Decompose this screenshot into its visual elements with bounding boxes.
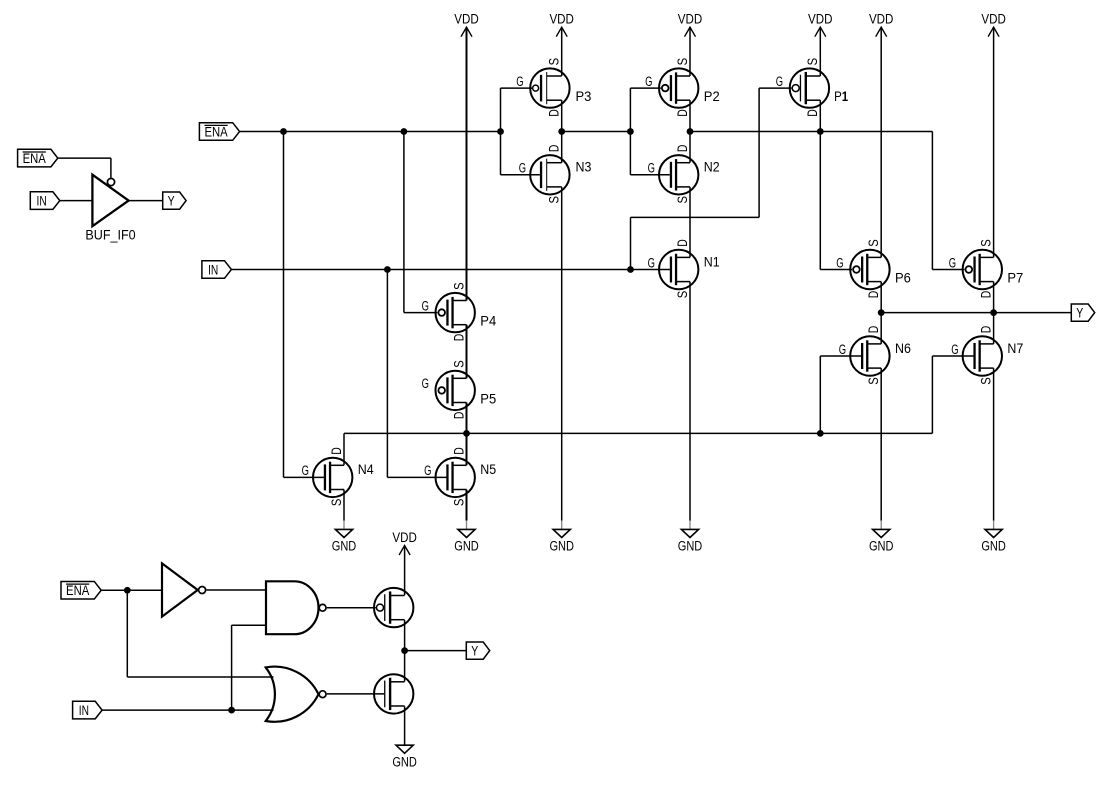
wire to P6 gate xyxy=(820,269,852,271)
wire to N2 gate xyxy=(630,174,669,176)
wire to P7 gate xyxy=(932,269,964,271)
wire ENA to P3/N3 gates xyxy=(500,88,502,175)
svg-text:G: G xyxy=(949,255,956,270)
wire P1 drain down to P6 gate row xyxy=(819,100,821,269)
transistor N1 (NMOS) xyxy=(648,239,720,298)
wire N2 source to N1 drain xyxy=(689,187,691,258)
junction xyxy=(627,128,634,135)
svg-text:ENA: ENA xyxy=(23,151,46,166)
svg-text:S: S xyxy=(547,58,562,66)
junction xyxy=(817,430,824,437)
svg-text:G: G xyxy=(516,74,523,89)
svg-text:D: D xyxy=(451,334,466,342)
wire P4 drain to P5 source xyxy=(466,325,468,379)
svg-text:VDD: VDD xyxy=(454,12,479,27)
wire ENA to NOR input xyxy=(127,676,273,678)
wire node x1 horizontal xyxy=(690,131,932,133)
svg-text:G: G xyxy=(648,161,655,176)
svg-text:GND: GND xyxy=(454,539,479,554)
wire inverter out to NAND input xyxy=(206,589,266,591)
svg-text:G: G xyxy=(645,74,652,89)
svg-text:ENA: ENA xyxy=(66,583,89,598)
wire N1 source to GND xyxy=(689,282,691,521)
wire to N6 gate xyxy=(820,355,861,357)
wire N5 source to GND xyxy=(466,490,468,521)
wire N4 source to GND xyxy=(343,490,345,521)
svg-text:VDD: VDD xyxy=(678,12,703,27)
wire P7 drain to N7 drain xyxy=(993,282,995,344)
wire to P3 gate xyxy=(501,87,533,89)
svg-text:S: S xyxy=(978,377,993,385)
inverter U1 xyxy=(162,563,198,616)
wire N6 source to GND xyxy=(880,368,882,520)
transistor P7 (PMOS) xyxy=(949,239,1024,298)
svg-text:VDD: VDD xyxy=(981,12,1006,27)
svg-text:VDD: VDD xyxy=(549,12,574,27)
wire NOR out to NMOS gate xyxy=(327,693,384,695)
wire to P1 gate xyxy=(759,87,791,89)
svg-text:Y: Y xyxy=(471,644,478,659)
svg-text:P3: P3 xyxy=(576,89,592,104)
net flag IN xyxy=(202,261,232,279)
svg-text:BUF_IF0: BUF_IF0 xyxy=(85,227,135,242)
wire up to P1 gate row xyxy=(758,88,760,217)
svg-text:D: D xyxy=(451,411,466,419)
wire VDD rail (thick) to P4 source xyxy=(466,27,468,300)
buffer symbol BUF_IF0 xyxy=(92,175,128,227)
transistor Q2 (NMOS) xyxy=(374,674,413,713)
svg-text:VDD: VDD xyxy=(869,12,894,27)
wire VDD to PMOS source xyxy=(404,546,406,596)
svg-text:D: D xyxy=(978,326,993,334)
net flag IN xyxy=(73,701,103,719)
power symbol VDD rail 6 xyxy=(988,27,999,37)
wire to P4 gate xyxy=(404,312,437,314)
junction xyxy=(384,266,391,273)
wire NAND out to PMOS gate xyxy=(327,607,376,609)
wire up to N6 gate row xyxy=(819,356,821,433)
svg-text:P7: P7 xyxy=(1007,271,1023,286)
wire node x2 xyxy=(562,131,631,133)
svg-text:Y: Y xyxy=(168,194,175,209)
wire to N4 gate xyxy=(284,476,324,478)
power symbol GND under N7 xyxy=(993,521,995,530)
svg-text:G: G xyxy=(424,463,431,478)
svg-text:IN: IN xyxy=(37,194,47,209)
transistor Q1 (PMOS) xyxy=(374,588,413,627)
transistor N7 (NMOS) xyxy=(951,326,1023,385)
transistor N3 (NMOS) xyxy=(519,144,592,203)
svg-text:S: S xyxy=(675,291,690,299)
svg-text:ENA: ENA xyxy=(204,124,227,139)
power symbol GND under N3 xyxy=(561,521,563,530)
svg-text:S: S xyxy=(866,377,881,385)
junction xyxy=(228,707,235,714)
svg-text:D: D xyxy=(978,290,993,298)
wire N4 drain up xyxy=(343,433,345,465)
svg-text:G: G xyxy=(648,255,655,270)
svg-text:G: G xyxy=(422,298,429,313)
junction xyxy=(124,587,131,594)
net flag ENA xyxy=(199,123,239,141)
svg-text:VDD: VDD xyxy=(392,530,417,545)
wire down to enable bubble xyxy=(110,158,112,177)
transistor P6 (PMOS) xyxy=(836,239,911,298)
svg-text:S: S xyxy=(451,360,466,368)
net flag ENA xyxy=(18,149,58,167)
wire IN to buffer xyxy=(60,200,93,202)
wire to N7 gate xyxy=(932,355,973,357)
wire net Y out xyxy=(405,650,467,652)
svg-text:GND: GND xyxy=(678,539,703,554)
wire PMOS drain to Y xyxy=(404,620,406,651)
svg-text:GND: GND xyxy=(332,539,357,554)
power symbol GND under N1 xyxy=(689,521,691,530)
svg-text:VDD: VDD xyxy=(808,12,833,27)
svg-text:S: S xyxy=(547,196,562,204)
wire ENA to inverter xyxy=(101,589,162,591)
transistor P3 (PMOS) xyxy=(516,58,591,117)
wire up to N7 gate row xyxy=(931,356,933,433)
svg-text:P2: P2 xyxy=(704,89,720,104)
svg-text:G: G xyxy=(302,463,309,478)
transistor P5 (PMOS) xyxy=(422,360,497,419)
power symbol GND under N4 xyxy=(343,521,345,530)
transistor P1 (PMOS) xyxy=(776,58,849,117)
svg-text:S: S xyxy=(451,499,466,507)
wire IN up toward P1 gate xyxy=(630,217,632,269)
BUF_IF0 enable bubble xyxy=(107,178,114,185)
transistor N2 (NMOS) xyxy=(648,144,720,203)
svg-text:D: D xyxy=(547,144,562,152)
svg-text:IN: IN xyxy=(208,262,218,277)
wire ENA down xyxy=(126,590,128,677)
svg-text:D: D xyxy=(329,447,344,455)
wire buffer output to Y xyxy=(129,200,163,202)
transistor N5 (NMOS) xyxy=(424,447,496,506)
NAND U2 output bubble xyxy=(319,604,326,611)
wire net ENA horizontal xyxy=(240,131,501,133)
power symbol GND under N5 xyxy=(466,521,468,530)
svg-text:D: D xyxy=(805,109,820,117)
wire toward P1 gate xyxy=(631,216,760,218)
svg-text:Y: Y xyxy=(1076,306,1083,321)
svg-text:N3: N3 xyxy=(576,160,592,175)
wire P5 drain to N5 drain xyxy=(466,403,468,466)
wire node enb horizontal xyxy=(344,432,932,434)
svg-text:S: S xyxy=(866,239,881,247)
svg-text:G: G xyxy=(951,342,958,357)
power symbol VDD (output stage) xyxy=(399,546,410,556)
svg-text:D: D xyxy=(866,290,881,298)
junction xyxy=(627,266,634,273)
junction xyxy=(401,128,408,135)
svg-text:D: D xyxy=(866,326,881,334)
wire VDD to P2 source xyxy=(689,27,691,76)
svg-text:D: D xyxy=(451,447,466,455)
svg-text:S: S xyxy=(675,58,690,66)
svg-text:D: D xyxy=(675,109,690,117)
svg-text:G: G xyxy=(836,255,843,270)
NAND gate U2 xyxy=(266,581,319,634)
svg-text:D: D xyxy=(675,144,690,152)
net flag IN xyxy=(30,192,60,210)
junction xyxy=(497,128,504,135)
NOR U3 output bubble xyxy=(319,691,326,698)
svg-text:P1: P1 xyxy=(834,89,848,104)
svg-text:P4: P4 xyxy=(480,314,496,329)
svg-text:P6: P6 xyxy=(895,271,911,286)
svg-text:G: G xyxy=(839,342,846,357)
svg-text:N5: N5 xyxy=(480,462,496,477)
transistor N4 (NMOS) xyxy=(302,447,375,506)
svg-text:N2: N2 xyxy=(704,160,720,175)
NOR gate U3 xyxy=(266,667,319,722)
junction xyxy=(687,128,694,135)
wire IN to NOR input xyxy=(102,709,273,711)
inverter U1 output bubble xyxy=(199,587,206,594)
wire IN down to N5 gate xyxy=(386,270,388,478)
power symbol VDD rail 4 xyxy=(815,27,826,37)
svg-text:N1: N1 xyxy=(704,254,720,269)
svg-text:IN: IN xyxy=(79,703,89,718)
svg-text:GND: GND xyxy=(392,755,417,770)
svg-text:GND: GND xyxy=(869,539,894,554)
wire P2 drain to N2 drain xyxy=(689,100,691,163)
wire x1 down to P7 gate xyxy=(931,132,933,270)
svg-text:D: D xyxy=(675,239,690,247)
svg-text:GND: GND xyxy=(549,539,574,554)
junction xyxy=(401,647,408,654)
wire N7 source to GND xyxy=(993,368,995,520)
wire to P2 gate xyxy=(630,87,660,89)
wire ENA to buffer xyxy=(58,157,111,159)
net flag Y xyxy=(163,192,186,209)
wire N3 source to GND xyxy=(561,187,563,521)
wire P6 drain to N6 drain xyxy=(880,282,882,344)
wire net Y xyxy=(881,312,1071,314)
svg-text:N4: N4 xyxy=(358,462,374,477)
junction xyxy=(463,430,470,437)
svg-text:G: G xyxy=(776,74,783,89)
transistor P2 (PMOS) xyxy=(645,58,720,117)
svg-text:P5: P5 xyxy=(480,391,496,406)
net flag Y xyxy=(466,642,489,659)
svg-text:S: S xyxy=(675,196,690,204)
power symbol VDD rail 2 xyxy=(556,27,567,37)
wire VDD to P6 source xyxy=(880,27,882,257)
wire to N5 gate xyxy=(387,476,446,478)
power symbol VDD rail 3 xyxy=(685,27,696,37)
junction xyxy=(990,309,997,316)
junction xyxy=(878,309,885,316)
power symbol VDD rail 1 xyxy=(461,27,472,37)
wire P3 drain to N3 drain xyxy=(561,100,563,163)
junction xyxy=(558,128,565,135)
junction xyxy=(280,128,287,135)
wire net IN horizontal xyxy=(231,269,669,271)
wire to NAND lower input xyxy=(232,624,266,626)
wire NMOS source to GND xyxy=(404,706,406,745)
wire to N3 gate xyxy=(501,174,540,176)
svg-text:D: D xyxy=(547,109,562,117)
transistor P4 (PMOS) xyxy=(422,282,497,341)
wire VDD to P7 source xyxy=(993,27,995,257)
wire Y to NMOS drain xyxy=(404,651,406,682)
svg-text:N6: N6 xyxy=(895,341,911,356)
net flag Y xyxy=(1071,304,1094,321)
svg-text:G: G xyxy=(519,161,526,176)
svg-text:N7: N7 xyxy=(1007,341,1023,356)
svg-text:S: S xyxy=(451,282,466,290)
wire IN up to NAND input xyxy=(231,625,233,710)
power symbol GND (output stage) xyxy=(396,745,413,753)
junction xyxy=(817,128,824,135)
wire VDD to P1 source xyxy=(819,27,821,76)
net flag ENA xyxy=(61,581,101,599)
power symbol GND under N6 xyxy=(880,521,882,530)
wire ENA down to P4 gate xyxy=(403,132,405,313)
wire x2 to P2/N2 gates xyxy=(629,88,631,175)
svg-text:S: S xyxy=(978,239,993,247)
transistor N6 (NMOS) xyxy=(839,326,911,385)
svg-text:S: S xyxy=(805,58,820,66)
svg-text:GND: GND xyxy=(981,539,1006,554)
svg-text:S: S xyxy=(329,499,344,507)
power symbol VDD rail 5 xyxy=(876,27,887,37)
wire ENA down to N4 gate xyxy=(283,132,285,478)
wire VDD to P3 source xyxy=(561,27,563,76)
svg-text:G: G xyxy=(422,376,429,391)
